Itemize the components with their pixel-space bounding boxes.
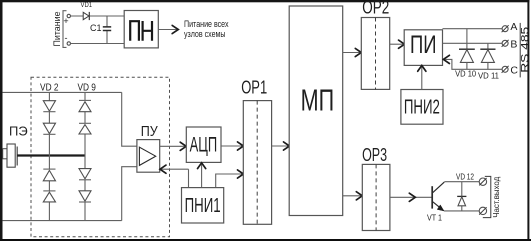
svg-text:VT 1: VT 1 bbox=[427, 213, 442, 222]
wire ПНИ1 to ОР1 bbox=[216, 174, 243, 188]
driver box ПНИ1 bbox=[182, 188, 224, 223]
terminal A bbox=[502, 21, 518, 33]
wire emitter bbox=[444, 210, 480, 212]
wire diode column VD9 bbox=[84, 92, 86, 220]
wire bottom to ПУ input2 bbox=[122, 167, 137, 221]
wire ПН output arrow bbox=[158, 29, 177, 31]
diode VD2 string b (down) bbox=[43, 123, 55, 134]
border frame right bbox=[527, 0, 529, 241]
transistor VT1 bbox=[427, 182, 444, 222]
svg-text:ПИ: ПИ bbox=[410, 31, 437, 59]
svg-text:ПЭ: ПЭ bbox=[9, 123, 28, 138]
driver box ПНИ2 bbox=[401, 90, 443, 125]
svg-text:VD 12: VD 12 bbox=[456, 172, 474, 181]
wire АЦП to ОР1 bbox=[221, 145, 243, 147]
opto isolation box ОР3 bbox=[362, 145, 390, 230]
RS 485 bracket bbox=[519, 23, 521, 78]
wire ПНИ1 to АЦП (arrow up) bbox=[201, 163, 203, 187]
terminal freq out top bbox=[479, 178, 486, 185]
terminal freq out bottom bbox=[479, 207, 486, 214]
svg-text:VD 9: VD 9 bbox=[77, 81, 96, 93]
svg-text:C1: C1 bbox=[90, 23, 102, 33]
connector bracket bbox=[63, 11, 67, 48]
svg-text:ПНИ2: ПНИ2 bbox=[404, 97, 440, 119]
wire line C (arrow into ПИ) bbox=[444, 59, 502, 69]
wire line B bbox=[443, 42, 502, 44]
microprocessor box МП bbox=[289, 6, 343, 216]
svg-text:ПНИ1: ПНИ1 bbox=[185, 195, 221, 217]
svg-text:VD 10: VD 10 bbox=[455, 70, 477, 79]
diode VD2 string d (up) bbox=[43, 190, 55, 192]
svg-text:B: B bbox=[510, 39, 517, 51]
dashed enclosure box (sensor section) bbox=[31, 77, 170, 237]
power converter box ПН bbox=[124, 11, 158, 48]
wire middle (bold) bbox=[17, 154, 85, 156]
opto isolation box ОР2 bbox=[361, 0, 389, 89]
diode VD9 string c (down) bbox=[79, 169, 91, 179]
capacitor C1 bbox=[90, 16, 111, 44]
diode VD1 bbox=[81, 0, 93, 20]
svg-text:ОР2: ОР2 bbox=[362, 0, 389, 17]
diode VD2 string a (down) bbox=[43, 101, 55, 111]
svg-text:C: C bbox=[510, 65, 518, 77]
wire ПНИ1 to ПУ (return, arrow left) bbox=[161, 169, 189, 187]
svg-text:АЦП: АЦП bbox=[190, 134, 218, 157]
svg-text:RS 485: RS 485 bbox=[519, 27, 531, 73]
wire top bbox=[2, 91, 121, 93]
terminal B bbox=[502, 39, 518, 51]
wire ОР3 to VT1 base bbox=[390, 196, 432, 198]
svg-text:ОР3: ОР3 bbox=[362, 145, 387, 165]
terminal C bbox=[502, 65, 519, 77]
svg-text:VD 2: VD 2 bbox=[40, 81, 59, 93]
interface box ПИ bbox=[404, 30, 442, 66]
wire power top bbox=[71, 15, 125, 17]
diode VD2 string c (up) bbox=[43, 168, 55, 170]
diode VD10 bbox=[455, 29, 477, 79]
svg-text:-: - bbox=[65, 33, 68, 43]
svg-text:Питание: Питание bbox=[52, 12, 63, 47]
wire ОР1 to МП bbox=[272, 145, 289, 147]
wire ОР2 to ПИ bbox=[390, 43, 404, 45]
wire diode column VD2 bbox=[48, 92, 50, 220]
terminal - (power) bbox=[67, 42, 70, 45]
wire bottom bbox=[2, 220, 121, 222]
svg-text:Питание всех: Питание всех bbox=[184, 19, 229, 29]
wire top to ПУ input1 bbox=[122, 92, 137, 146]
amplifier box ПУ bbox=[137, 123, 160, 172]
svg-text:+: + bbox=[63, 16, 68, 26]
wire line A bbox=[443, 28, 502, 30]
svg-text:Част.выход: Част.выход bbox=[492, 176, 501, 217]
svg-text:A: A bbox=[510, 21, 517, 33]
ПН letters bbox=[130, 21, 152, 41]
svg-text:VD1: VD1 bbox=[81, 0, 93, 9]
opto isolation box ОР1 bbox=[241, 77, 271, 224]
svg-text:ПУ: ПУ bbox=[141, 123, 158, 140]
border frame left bbox=[0, 0, 3, 241]
border frame bottom bbox=[0, 239, 531, 241]
wire power bottom bbox=[71, 43, 125, 45]
diode VD9 string d (down) bbox=[79, 191, 91, 201]
diode VD9 string b (up) bbox=[79, 122, 91, 124]
diode VD11 bbox=[478, 43, 500, 80]
diode VD12 bbox=[456, 172, 474, 211]
wire МП to ОР3 bbox=[343, 195, 362, 197]
wire МП to ОР2 bbox=[343, 52, 361, 54]
svg-text:ОР1: ОР1 bbox=[241, 77, 267, 97]
freq out bracket bbox=[483, 176, 491, 217]
svg-text:МП: МП bbox=[301, 83, 335, 118]
wire ПУ to АЦП bbox=[160, 145, 186, 147]
diode VD9 string a (up) bbox=[79, 99, 91, 101]
wire ПНИ2 to ПИ (arrow up) bbox=[421, 66, 423, 90]
border frame top bbox=[0, 0, 529, 2]
svg-text:VD 11: VD 11 bbox=[478, 72, 500, 81]
ADC box АЦП bbox=[186, 127, 221, 162]
piezo element ПЭ bbox=[2, 123, 27, 167]
terminal + (power) bbox=[67, 14, 70, 17]
svg-text:узлов схемы: узлов схемы bbox=[184, 29, 226, 39]
wire collector bbox=[444, 181, 479, 183]
